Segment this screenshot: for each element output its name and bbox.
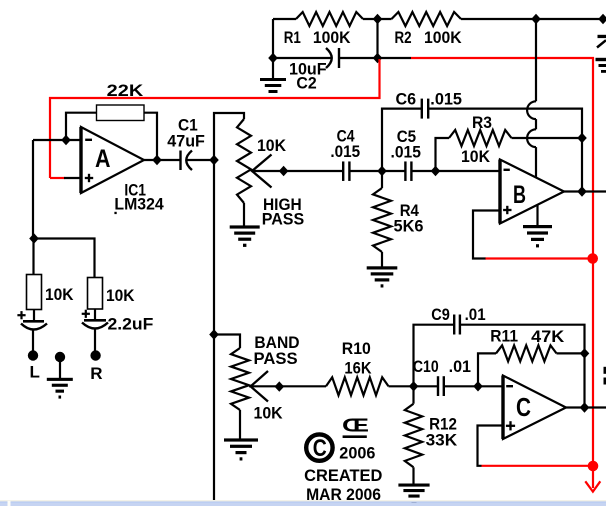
wire red arrow down [592, 466, 594, 488]
wire feedback down C [583, 353, 585, 407]
svg-text:PASS: PASS [262, 209, 305, 228]
wire wiper to R10 [279, 385, 326, 387]
capacitor C6 .015 [421, 99, 423, 119]
wire C6 left leg [382, 109, 422, 171]
svg-text:R11: R11 [490, 327, 518, 346]
wire pot top lead [214, 113, 244, 160]
ground under C2 [272, 58, 274, 79]
svg-text:R2: R2 [395, 28, 412, 47]
pin plus left cap [17, 314, 25, 316]
svg-text:L: L [30, 363, 40, 382]
svg-text:47uF: 47uF [167, 132, 205, 151]
wire R4 top lead [381, 171, 383, 188]
wire red opamp C plus [482, 465, 594, 467]
svg-text:C6: C6 [396, 90, 417, 109]
node C10 left junction [409, 381, 419, 391]
wire R1R2 junction down [376, 19, 378, 58]
resistor 10K left input [27, 275, 42, 310]
resistor R4 5K6 [373, 188, 391, 252]
capacitor C1 47uF [179, 151, 181, 171]
svg-text:C: C [313, 435, 327, 462]
svg-text:.015: .015 [430, 90, 462, 109]
capacitor C10 .01 [437, 376, 439, 396]
wire R11 left leg [478, 353, 496, 386]
capacitor C2 10uF [273, 57, 332, 59]
svg-text:PASS: PASS [254, 349, 298, 368]
wire red opamp B plus [485, 257, 593, 259]
ground under band pot [239, 410, 241, 440]
svg-text:22K: 22K [107, 81, 144, 100]
svg-text:10K: 10K [461, 147, 491, 166]
pin A plus sign [85, 177, 93, 179]
potentiometer 10K band pass [231, 348, 249, 410]
ground under R4 [381, 252, 383, 267]
node red junction B [587, 253, 598, 264]
svg-text:10K: 10K [257, 136, 287, 155]
pin C plus sign [506, 425, 515, 427]
node top right edge [598, 14, 606, 24]
node supply drop top [531, 14, 541, 24]
wire rail mid [213, 160, 215, 501]
svg-text:.01: .01 [449, 357, 471, 376]
potentiometer 10K high pass [237, 119, 251, 203]
node C output junction [580, 402, 590, 412]
capacitor right electrolytic 2.2uF [94, 309, 96, 321]
svg-text:C10: C10 [413, 357, 439, 376]
node C2 left junction [268, 53, 278, 63]
resistor 22K feedback [66, 113, 97, 140]
svg-text:C: C [516, 392, 531, 422]
svg-text:100K: 100K [424, 28, 462, 47]
node R1-R2 junction [373, 14, 383, 24]
wire red top right [411, 58, 593, 466]
node C minus junction [473, 381, 483, 391]
wire C output [566, 406, 606, 408]
pin B plus sign [503, 209, 511, 211]
resistor R12 33K [412, 386, 414, 403]
wire R11 right leg [557, 352, 585, 354]
pin A minus sign [85, 139, 92, 141]
wire R3 to right [512, 137, 583, 139]
wire junction to C5 [382, 170, 405, 172]
pin B minus sign [504, 169, 510, 171]
node B minus junction [431, 166, 441, 176]
capacitor left electrolytic [33, 310, 35, 322]
node red junction bottom [588, 461, 599, 472]
svg-text:.01: .01 [465, 305, 486, 324]
node C2 right junction [373, 53, 383, 63]
wire C6 to right [428, 109, 582, 138]
scrollbar bottom [0, 500, 606, 502]
wire C9 left leg [414, 325, 455, 387]
svg-text:100K: 100K [313, 28, 351, 47]
op-amp C [503, 376, 566, 440]
wire wiper to C4 [284, 170, 344, 172]
node R11 C9 junction [580, 348, 590, 358]
node C4C5R4 junction [377, 166, 387, 176]
node wiper junction bp [275, 381, 285, 391]
svg-text:R: R [90, 364, 102, 383]
svg-text:.015: .015 [391, 142, 421, 161]
node A minus junction [61, 135, 71, 145]
wire to right 10K [34, 239, 95, 278]
clipped symbol top right edge [598, 35, 606, 38]
svg-text:R3: R3 [472, 113, 492, 132]
svg-text:2006: 2006 [339, 443, 375, 462]
node C1 out junction [209, 155, 219, 165]
node R3C6 junction [577, 133, 587, 143]
wire C plus leg [478, 426, 504, 466]
wire R10 to C10 [389, 385, 439, 387]
pin plus right cap [82, 313, 90, 315]
ground under R12 [412, 467, 414, 484]
capacitor C5 .015 [404, 161, 406, 181]
clipped label right edge [604, 367, 606, 374]
ground under high pot [243, 203, 245, 226]
resistor R1 100K [296, 12, 363, 26]
svg-text:A: A [95, 145, 111, 173]
svg-text:47K: 47K [531, 327, 565, 346]
ground op-amp B [536, 205, 538, 226]
svg-text:33K: 33K [426, 431, 458, 450]
pin C minus sign [506, 385, 513, 387]
svg-text:.015: .015 [330, 142, 360, 161]
wire C9 right leg [460, 325, 585, 354]
resistor R2 100K [392, 12, 462, 26]
ground input common [59, 357, 61, 379]
wire A output [144, 159, 181, 161]
wire to left 10K [32, 239, 34, 275]
wire top supply rail [273, 18, 296, 20]
resistor R11 47K [496, 345, 557, 361]
svg-text:R1: R1 [284, 28, 301, 47]
svg-text:R10: R10 [342, 339, 371, 358]
wire C5 to B minus [411, 170, 500, 172]
pot wiper band pass [249, 385, 279, 387]
svg-text:C9: C9 [431, 305, 450, 324]
wire left rail down [32, 140, 34, 239]
svg-text:16K: 16K [344, 358, 372, 377]
svg-text:C2: C2 [296, 74, 316, 93]
svg-text:10K: 10K [45, 285, 74, 304]
node ground terminal [55, 352, 65, 362]
node wiper junction hp [279, 166, 289, 176]
node left rail junction [29, 233, 39, 243]
op-amp B [500, 160, 564, 224]
resistor R3 10K [449, 130, 512, 146]
wire supply drop [535, 19, 537, 101]
wire A minus rail [33, 139, 81, 141]
wire R3 left leg [436, 138, 450, 171]
wire B output [564, 190, 606, 192]
wire A plus stub [64, 177, 81, 179]
node terminal L [28, 350, 38, 360]
wire band pot top lead [214, 335, 240, 349]
node A output junction [152, 155, 162, 165]
wire red feedback top-left [50, 59, 380, 178]
svg-text:B: B [513, 181, 526, 209]
wire feedback down [581, 138, 583, 192]
node terminal R [90, 350, 100, 360]
wire B plus leg [473, 211, 500, 259]
capacitor C9 .01 [453, 315, 455, 335]
wire C10 to C minus [444, 385, 503, 387]
svg-text:CREATED: CREATED [304, 466, 382, 485]
svg-text:10K: 10K [106, 286, 135, 305]
capacitor C4 .015 [342, 161, 344, 181]
svg-text:5K6: 5K6 [394, 217, 424, 236]
node B output junction [577, 186, 587, 196]
svg-text:10K: 10K [254, 403, 284, 422]
wire red plus stub A [50, 177, 65, 179]
node rail band junction [209, 329, 219, 339]
resistor 10K right input [88, 278, 103, 310]
op-amp A [81, 127, 144, 193]
svg-text:LM324: LM324 [114, 195, 164, 214]
wire R1 left down [272, 19, 274, 58]
pot wiper high pass [252, 170, 284, 172]
wire C4 to junction [349, 170, 382, 172]
svg-text:Œ: Œ [342, 416, 369, 436]
logo copyright symbol [306, 434, 332, 460]
resistor R10 16K [326, 377, 389, 395]
svg-text:2.2uF: 2.2uF [108, 315, 154, 334]
